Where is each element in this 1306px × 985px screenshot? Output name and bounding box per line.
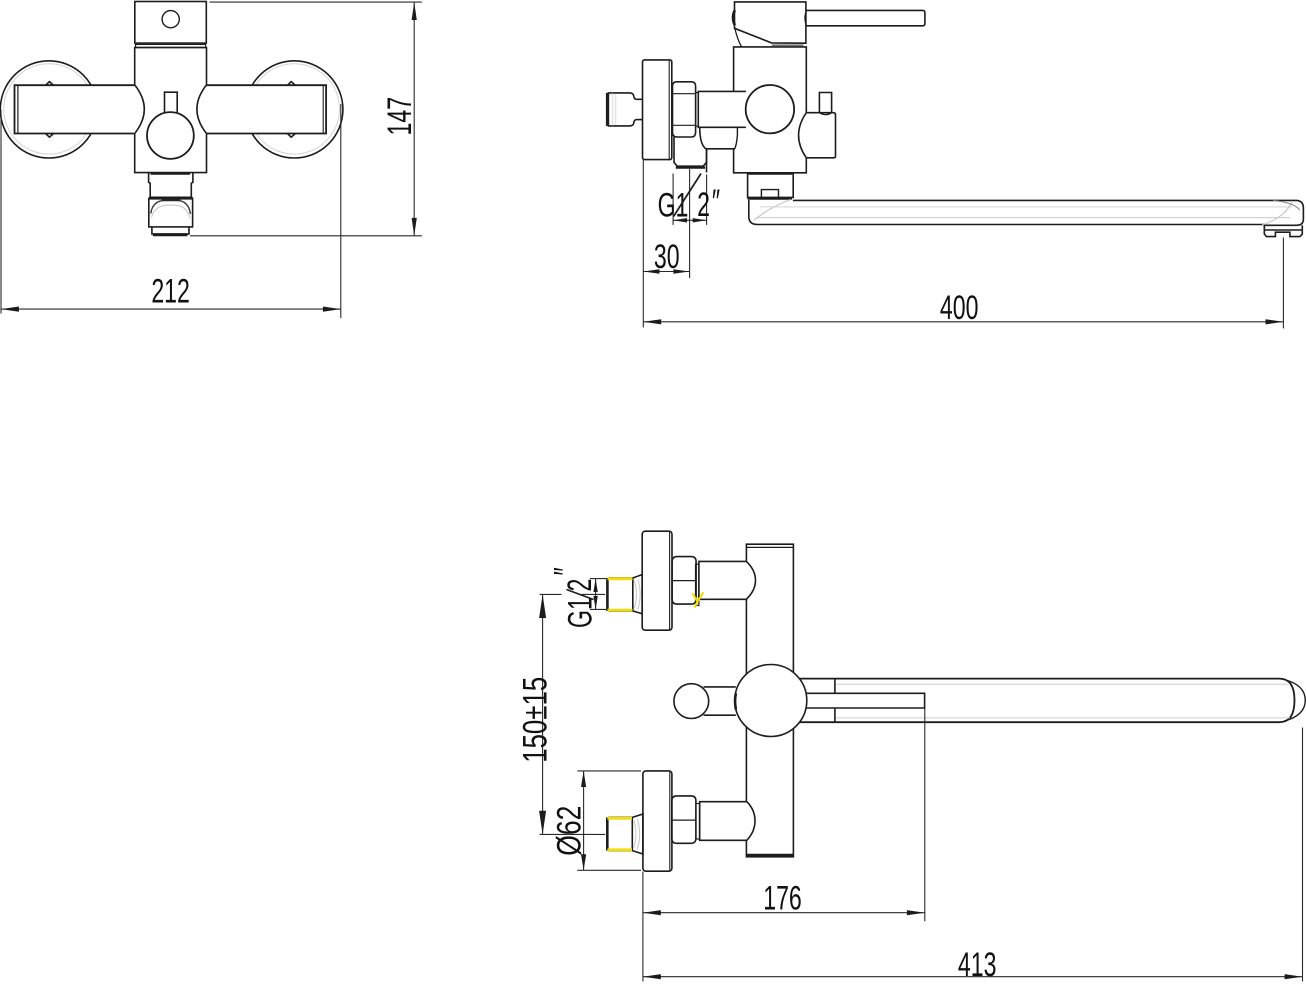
right circle chevron bottom <box>287 134 295 138</box>
hex nut side <box>672 82 695 137</box>
supply stub shading <box>613 94 616 126</box>
shower outlet shank <box>149 173 193 198</box>
left escutcheon outer circle <box>0 61 97 158</box>
left pipe <box>15 85 135 133</box>
dim d62 bottom extension <box>577 869 641 871</box>
dim 30 line <box>643 271 689 273</box>
hex facet top line <box>673 93 696 95</box>
washer side <box>696 93 699 127</box>
bottom escutcheon inner line <box>669 772 671 871</box>
dim G1/2 side line <box>673 219 707 221</box>
dim 176 left extension (wall) <box>642 872 644 931</box>
cartridge dome plan <box>735 665 807 737</box>
dim G1/2 side left extension <box>672 174 674 225</box>
dim text 147 <box>382 97 419 136</box>
diverter stem side <box>819 93 831 113</box>
side body <box>734 47 807 173</box>
BOTTOM VIEW <box>674 544 1305 857</box>
right pipe <box>207 85 327 133</box>
mixer body front <box>135 48 207 173</box>
hex facet bottom line <box>673 124 696 126</box>
handle knob plan <box>674 684 709 719</box>
handle neck plan <box>704 687 736 715</box>
bottom thread tip dark end <box>606 817 609 850</box>
top thread tip dark end <box>606 578 609 611</box>
right pipe end double line <box>322 86 324 134</box>
wall escutcheon plate side <box>643 60 672 160</box>
dim G1/2 plan bottom extension <box>590 608 606 610</box>
aerator tip bottom dark line <box>153 233 188 236</box>
aerator slot line <box>162 199 181 201</box>
handle cap button <box>733 10 735 25</box>
dim d62 top extension <box>577 770 641 772</box>
aerator junction dark line <box>149 197 193 200</box>
G1/2 second marks <box>712 184 720 221</box>
right escutcheon inner circle <box>249 64 339 154</box>
400 arrow left <box>643 319 661 324</box>
dim 400 right extension <box>1282 238 1284 329</box>
dim text G1/2 plan rotated <box>562 597 599 628</box>
spout inner highlight bottom <box>756 217 1290 219</box>
dim 400 line <box>643 321 1283 323</box>
dim G1/2 side center extension <box>689 169 691 278</box>
dim text 400 <box>940 290 979 327</box>
bottom washer plan <box>696 804 700 840</box>
top escutcheon plan <box>642 531 672 630</box>
lower connection duct right arc <box>735 128 738 149</box>
G1/2 plan arrow down <box>593 596 597 609</box>
30 arrow left <box>643 269 659 274</box>
right circle chevron top <box>287 82 295 86</box>
bottom eccentric connector <box>607 771 755 871</box>
dim G1/2 plan line <box>595 579 597 610</box>
dim 413 left extension <box>642 930 644 982</box>
dim 30 left extension (wall line) <box>642 160 644 328</box>
svg-text:″: ″ <box>712 184 720 221</box>
dim 147 line <box>413 2 415 236</box>
G1/2 plan slash <box>567 590 594 600</box>
check valve bottom dark line <box>676 166 705 168</box>
top eccentric pipe plan <box>699 561 756 599</box>
spout end outer arc <box>1284 680 1305 722</box>
outlet block top dark line <box>749 172 793 174</box>
svg-text:Ø62: Ø62 <box>550 806 588 856</box>
SIDE VIEW <box>607 2 1303 237</box>
dim 147 bottom extension line <box>190 235 422 237</box>
176 arrow right <box>907 910 925 915</box>
top thread yellow bottom <box>608 609 633 612</box>
svg-text:400: 400 <box>940 290 979 327</box>
aerator inner dark dome arc <box>151 200 191 214</box>
aerator body <box>149 199 193 227</box>
G1/2 side arrow left <box>673 218 687 222</box>
left circle chevron top <box>46 82 54 86</box>
handle top cap <box>135 2 207 44</box>
spout left swoosh <box>754 200 791 221</box>
bottom cone shading <box>634 819 640 849</box>
aerator inner light arc <box>152 205 190 218</box>
bottom thread yellow bottom <box>607 848 632 851</box>
dim text 150+-15 rotated <box>517 677 554 763</box>
dim text 212 <box>151 273 190 310</box>
svg-text:G1: G1 <box>562 597 599 628</box>
spout tube side <box>749 200 1304 230</box>
dim 212 right extension line <box>340 104 342 318</box>
tube highlight top <box>836 683 1290 685</box>
spout end bend highlight <box>1262 202 1292 225</box>
dim 176 right extension <box>924 709 926 922</box>
spout connection tabs <box>800 679 925 723</box>
bottom escutcheon plan <box>643 771 672 871</box>
svg-text:30: 30 <box>654 239 680 276</box>
dim 150 top extension <box>540 593 562 595</box>
head pivot curve <box>735 29 742 47</box>
plate bottom dark line <box>746 854 793 856</box>
right escutcheon outer circle <box>246 61 343 158</box>
top cone <box>633 575 642 614</box>
dim 413 right extension <box>1302 728 1304 982</box>
top washer plan <box>696 564 699 605</box>
check valve block side <box>674 137 707 166</box>
lower body column <box>706 149 708 173</box>
176 arrow left <box>643 910 661 915</box>
dim d62 line <box>583 771 585 870</box>
outlet bottom dark line <box>748 197 792 200</box>
plan body plate <box>746 544 793 857</box>
top eccentric connector <box>607 531 755 630</box>
d62 arrow up <box>581 771 586 787</box>
413 arrow right <box>1285 974 1303 979</box>
svg-text:212: 212 <box>151 273 190 310</box>
dim G1/2 plan top extension <box>590 578 606 580</box>
top cone shading <box>635 580 641 610</box>
G1/2 side arrow right <box>693 218 707 222</box>
413 arrow left <box>643 974 661 979</box>
svg-text:150±15: 150±15 <box>517 677 554 763</box>
svg-text:G1: G1 <box>658 187 689 224</box>
left escutcheon inner circle <box>4 64 94 154</box>
supply stub end dark edge <box>606 93 609 126</box>
plate top inner line <box>746 546 793 548</box>
cartridge circle side <box>746 85 794 133</box>
dim text 30 <box>654 239 680 276</box>
d62 arrow down <box>581 854 586 870</box>
diverter stem front <box>165 92 178 112</box>
yellow finish mark <box>693 593 704 608</box>
G1/2 plan arrow up <box>593 579 597 592</box>
400 arrow right <box>1266 319 1284 324</box>
dim 212 left extension line <box>0 110 2 314</box>
bottom thread yellow top <box>607 817 632 820</box>
spout nozzle side <box>1264 225 1302 236</box>
spout inner highlight top <box>760 206 1292 208</box>
dim 413 line <box>643 976 1303 978</box>
collar line under head <box>772 44 804 46</box>
top hex plan <box>672 557 696 605</box>
G1/2 plan second mark <box>548 567 585 575</box>
svg-text:413: 413 <box>958 947 997 984</box>
top thread tip <box>609 578 633 611</box>
dim 150 line <box>542 594 544 834</box>
G1/2 slash <box>674 174 702 217</box>
handle head <box>735 2 806 43</box>
dim 176 line <box>643 912 925 914</box>
bottom eccentric pipe plan <box>700 802 755 841</box>
30 arrow right <box>673 269 689 274</box>
left pipe end double line <box>17 86 19 134</box>
dim text 413 <box>958 947 997 984</box>
handle indicator circle <box>162 11 179 28</box>
svg-text:147: 147 <box>382 97 419 136</box>
aerator tip <box>152 227 189 234</box>
svg-text:″: ″ <box>548 567 585 575</box>
dim text d62 rotated <box>550 806 588 856</box>
stem boss arc <box>819 113 831 115</box>
dim 147 top extension line <box>210 1 422 3</box>
left circle chevron bottom <box>46 134 54 138</box>
diverter housing side <box>799 113 836 158</box>
spout outlet block side <box>748 173 794 197</box>
neck joint dark arc <box>734 693 737 709</box>
lever root curve <box>805 10 807 25</box>
dim 212 arrow right <box>323 307 341 312</box>
dim 212 arrow left <box>1 307 19 312</box>
svg-text:176: 176 <box>763 880 802 917</box>
shank top shadow line <box>151 173 191 175</box>
dim 147 arrow up <box>412 2 417 20</box>
spout tube plan <box>800 679 1295 723</box>
inlet pipe side <box>698 91 746 127</box>
dim text G1/2 side <box>658 187 689 224</box>
top thread yellow top <box>608 577 633 580</box>
plate inner edge line <box>668 61 670 160</box>
spout end top arc <box>1273 201 1300 210</box>
bottom hex plan <box>672 796 696 843</box>
bottom cone <box>632 814 643 854</box>
dim G1/2 side right extension <box>706 175 708 225</box>
dim 150 bottom extension <box>540 833 606 835</box>
lower connection duct left arc <box>700 128 735 149</box>
handle collar ring <box>136 44 206 47</box>
diverter knob front <box>147 112 194 159</box>
top hex facet line <box>672 580 696 582</box>
dim 147 arrow down <box>412 218 417 236</box>
dim text 176 <box>763 880 802 917</box>
150 arrow down <box>539 811 546 835</box>
handle lever <box>807 10 925 25</box>
bottom thread tip <box>608 817 632 850</box>
wall supply stub <box>608 93 642 126</box>
top escutcheon inner line <box>669 532 671 630</box>
bottom hex facet line <box>672 819 696 821</box>
150 arrow up <box>539 594 546 618</box>
dim 212 line <box>1 308 341 310</box>
tube highlight bottom <box>836 717 1290 719</box>
outlet inner rect <box>761 190 778 198</box>
svg-text:2: 2 <box>697 187 710 224</box>
